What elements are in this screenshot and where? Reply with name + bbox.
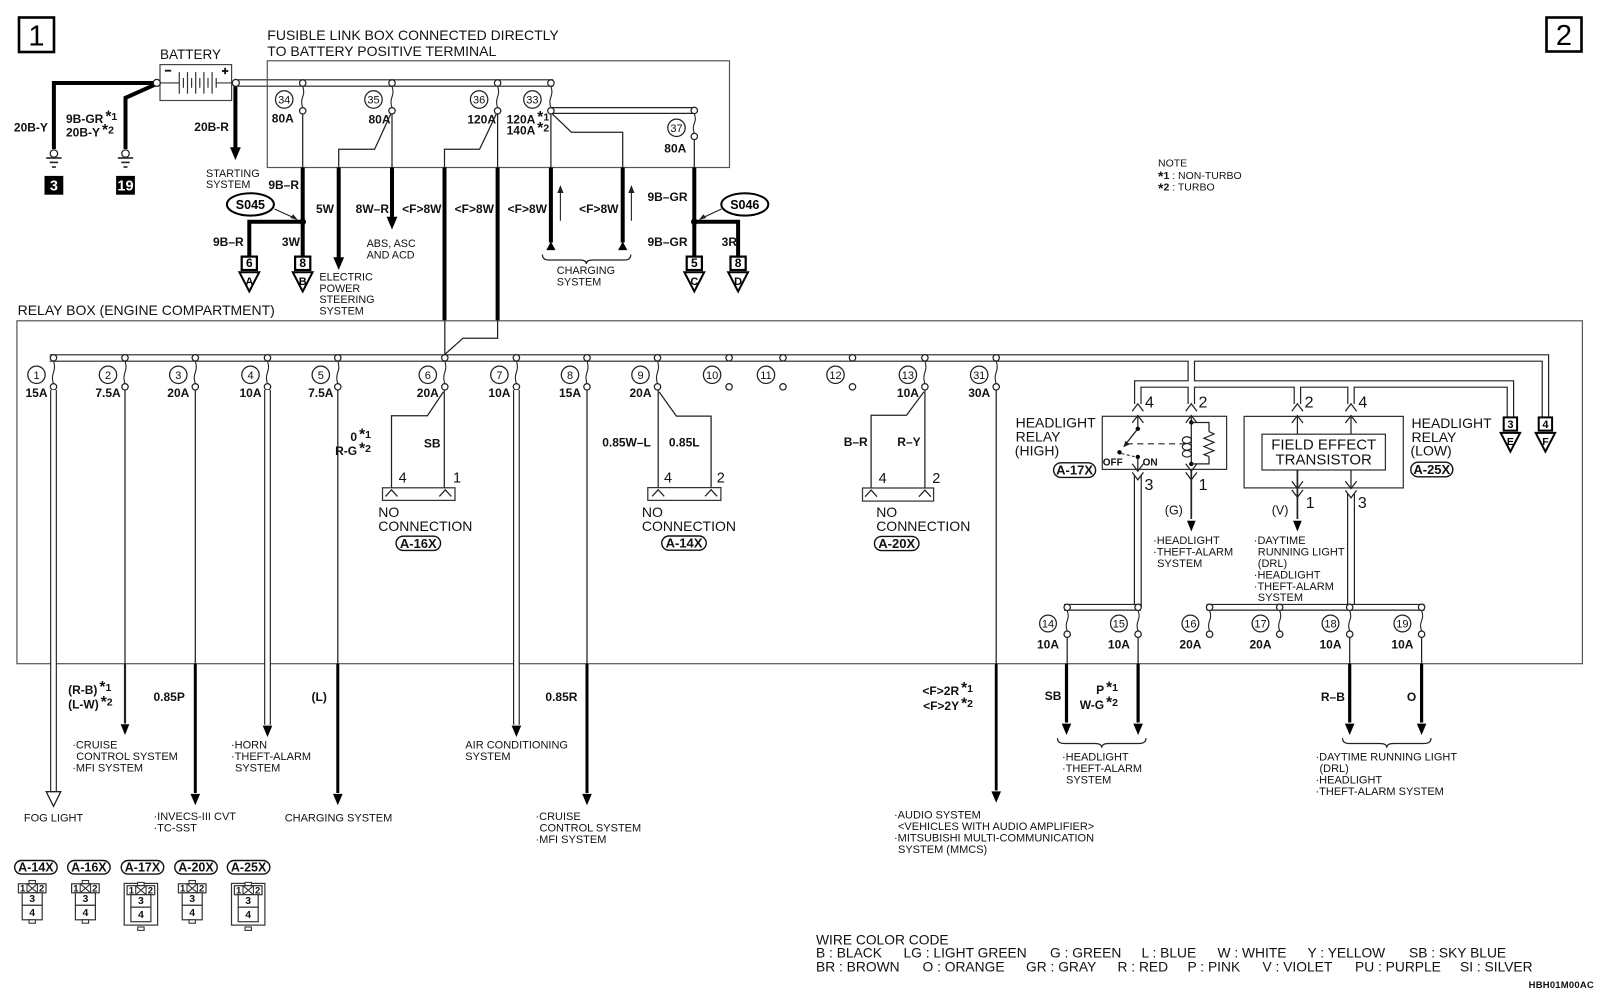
svg-text:3: 3	[1358, 495, 1367, 512]
svg-text:4: 4	[1358, 395, 1367, 412]
svg-text:SI : SILVER: SI : SILVER	[1460, 960, 1533, 975]
svg-text:4: 4	[82, 907, 88, 919]
svg-text:3: 3	[82, 893, 88, 905]
wire pin2 to coil	[1190, 416, 1192, 423]
wire fuse9 to A-14X pin4 (0.85W-L)	[657, 390, 659, 488]
op box: headlight relay high U1	[1102, 416, 1226, 469]
svg-text:3: 3	[50, 178, 58, 194]
fuse 19 (10A)	[1418, 604, 1424, 610]
svg-text:10A: 10A	[1391, 638, 1413, 652]
svg-text:A-16X: A-16X	[71, 861, 107, 875]
svg-text:A-14X: A-14X	[666, 536, 703, 551]
battery negative terminal	[153, 79, 160, 86]
svg-text:4: 4	[1145, 395, 1154, 412]
relay coil	[1190, 423, 1192, 464]
svg-text:SYSTEM: SYSTEM	[465, 751, 510, 763]
fuse 16 (20A)	[1206, 604, 1212, 610]
fusible link 36	[494, 80, 500, 86]
svg-text:(L): (L)	[312, 690, 327, 704]
wire fuse4 output (horn)	[264, 390, 271, 725]
wire ON contact to pin3	[1137, 457, 1139, 470]
fuse bus segment 2 (16-19)	[1207, 604, 1425, 611]
svg-text:9B–GR: 9B–GR	[647, 235, 687, 249]
wire fuse13 to A-20X pin2 (R-Y)	[924, 390, 926, 488]
svg-text:ELECTRIC: ELECTRIC	[319, 271, 373, 283]
wire to connector B	[301, 222, 305, 257]
wire pin4 to switch	[1137, 416, 1139, 429]
fuse 13 (10A)	[922, 355, 928, 361]
svg-text:9: 9	[637, 370, 643, 382]
wire audio output from fuse31	[995, 664, 998, 791]
splice S045	[227, 193, 274, 215]
svg-text:·HEADLIGHT: ·HEADLIGHT	[1153, 535, 1220, 547]
fuse 15 (10A)	[1135, 604, 1141, 610]
svg-text:30A: 30A	[968, 386, 990, 400]
wire P/W-G from fuse15	[1136, 664, 1139, 723]
connector pinout A-17X	[121, 861, 164, 875]
svg-text:S045: S045	[236, 198, 265, 212]
svg-text:7: 7	[496, 370, 502, 382]
svg-text:LG : LIGHT GREEN: LG : LIGHT GREEN	[904, 946, 1027, 961]
svg-text:FOG LIGHT: FOG LIGHT	[24, 813, 84, 825]
svg-text:20A: 20A	[167, 386, 189, 400]
svg-text:4: 4	[245, 909, 251, 921]
svg-text:BR : BROWN: BR : BROWN	[816, 960, 900, 975]
svg-text:·DAYTIME RUNNING LIGHT: ·DAYTIME RUNNING LIGHT	[1316, 751, 1458, 763]
svg-text:2: 2	[105, 370, 111, 382]
connector 3/E	[1504, 417, 1517, 430]
svg-text:4: 4	[664, 471, 672, 487]
svg-text:O: O	[1407, 690, 1416, 704]
FET entry chevrons	[1292, 416, 1303, 423]
svg-text:5: 5	[691, 256, 698, 270]
svg-text:10A: 10A	[488, 386, 510, 400]
svg-text:CHARGING SYSTEM: CHARGING SYSTEM	[285, 813, 393, 825]
fuse 9 (20A)	[654, 355, 660, 361]
svg-text:AND ACD: AND ACD	[367, 249, 415, 261]
wire fuse36 branch	[445, 113, 497, 167]
svg-text:8W–R: 8W–R	[356, 202, 390, 216]
svg-text:1: 1	[33, 370, 39, 382]
svg-text:HBH01M00AC: HBH01M00AC	[1529, 980, 1594, 991]
junction S046	[691, 219, 698, 226]
connector pinout A-25X	[227, 861, 270, 875]
wire 9B-GR from fuse37	[692, 168, 696, 220]
connector A-16X body	[383, 488, 456, 501]
svg-text:31: 31	[973, 370, 985, 382]
svg-text:S046: S046	[730, 198, 759, 212]
relay high entry chevrons on box edge	[1132, 416, 1143, 423]
wire FET pin3 out	[1350, 470, 1352, 488]
fusible link box	[267, 61, 729, 168]
svg-text:13: 13	[902, 370, 914, 382]
svg-text:·MFI SYSTEM: ·MFI SYSTEM	[72, 762, 143, 774]
svg-text:4: 4	[189, 907, 195, 919]
svg-text:AIR CONDITIONING: AIR CONDITIONING	[465, 739, 568, 751]
svg-text:2: 2	[1556, 20, 1572, 52]
connector pinout A-20X	[175, 861, 218, 875]
wire fuse8 output	[586, 390, 588, 664]
brace headlight/theft-alarm	[1058, 738, 1147, 748]
wire (L) from fuse5	[336, 664, 339, 793]
charging direction arrow 2	[630, 189, 632, 221]
fusible link 33	[548, 80, 554, 86]
svg-text:3: 3	[189, 893, 195, 905]
svg-text:12: 12	[829, 370, 841, 382]
svg-text:·THEFT-ALARM: ·THEFT-ALARM	[1254, 581, 1334, 593]
wire fuse36 output straight	[497, 114, 499, 168]
fuse 8 (15A)	[584, 355, 590, 361]
svg-text:<F>8W: <F>8W	[402, 202, 442, 216]
svg-text:10A: 10A	[1037, 638, 1059, 652]
svg-text:STARTING: STARTING	[206, 168, 260, 180]
wire fuse5 output	[337, 390, 339, 664]
wire fuse7 output (air conditioning)	[513, 390, 520, 725]
svg-text:·THEFT-ALARM SYSTEM: ·THEFT-ALARM SYSTEM	[1316, 786, 1444, 798]
relay box (engine compartment)	[17, 321, 1583, 664]
svg-text:20B-Y*2: 20B-Y*2	[66, 122, 114, 140]
svg-text:D: D	[734, 276, 742, 288]
svg-text:(V): (V)	[1272, 503, 1289, 517]
svg-text:CHARGING: CHARGING	[557, 265, 615, 277]
connector A-14X body	[648, 488, 721, 501]
svg-text:140A*2: 140A*2	[507, 120, 550, 138]
svg-text:·HEADLIGHT: ·HEADLIGHT	[1062, 751, 1129, 763]
connector 4/F	[1539, 417, 1552, 430]
svg-text:8: 8	[299, 256, 306, 270]
relay high pin1 exit chevron	[1186, 464, 1197, 471]
wire 0.85R from fuse8	[586, 664, 589, 793]
svg-text:BATTERY: BATTERY	[160, 47, 221, 62]
svg-text:GR : GRAY: GR : GRAY	[1026, 960, 1096, 975]
svg-text:(DRL): (DRL)	[1258, 558, 1287, 570]
wire fuse 15 output	[1137, 637, 1139, 663]
svg-text:(DRL): (DRL)	[1320, 763, 1349, 775]
charging system brace	[542, 255, 630, 265]
svg-text:TO BATTERY POSITIVE TERMINAL: TO BATTERY POSITIVE TERMINAL	[267, 43, 496, 59]
svg-text:L : BLUE: L : BLUE	[1142, 946, 1197, 961]
wire SB from fuse14	[1065, 664, 1068, 723]
fusible link 37	[691, 107, 697, 113]
svg-text:1: 1	[1306, 495, 1315, 512]
svg-text:SYSTEM (MMCS): SYSTEM (MMCS)	[898, 844, 987, 856]
wire cruise/MFI output from fuse2	[124, 664, 126, 724]
wire feed into bus from F8W no.1	[444, 321, 446, 355]
sheet number box 2	[1547, 18, 1582, 52]
svg-text:CONNECTION: CONNECTION	[876, 518, 970, 534]
svg-text:<F>8W: <F>8W	[455, 202, 495, 216]
wire pin4 into FET	[1350, 416, 1352, 435]
svg-text:17: 17	[1254, 618, 1266, 630]
svg-text:4: 4	[138, 909, 144, 921]
svg-text:SYSTEM: SYSTEM	[1258, 592, 1303, 604]
svg-text:80A: 80A	[368, 112, 390, 126]
svg-text:3: 3	[1507, 419, 1513, 431]
wire fuse34 output	[302, 114, 304, 168]
relay box main bus	[50, 358, 1546, 417]
svg-text:B: B	[299, 276, 307, 288]
svg-text:10: 10	[706, 370, 718, 382]
svg-text:15: 15	[1113, 618, 1125, 630]
fuse 2 (7.5A)	[122, 355, 128, 361]
battery positive feed bus	[238, 79, 553, 87]
svg-text:18: 18	[1324, 618, 1336, 630]
svg-text:·CRUISE: ·CRUISE	[72, 739, 117, 751]
wire FET pin1 out	[1296, 470, 1298, 519]
wire battery negative to ground 3 (20B-Y)	[54, 83, 155, 149]
wire to connector C	[692, 222, 696, 257]
svg-text:ON: ON	[1143, 457, 1158, 468]
svg-text:SB: SB	[1045, 689, 1062, 703]
svg-text:2: 2	[932, 471, 940, 487]
svg-text:11: 11	[760, 370, 771, 382]
svg-text:20A: 20A	[417, 386, 439, 400]
svg-text:3: 3	[29, 893, 35, 905]
wire F8W no.1 (to relay box)	[443, 168, 447, 321]
connector pinout A-16X	[68, 861, 111, 875]
svg-text:·HEADLIGHT: ·HEADLIGHT	[1316, 774, 1383, 786]
svg-text:O : ORANGE: O : ORANGE	[923, 960, 1005, 975]
svg-text:80A: 80A	[272, 112, 294, 126]
fuse 17 (20A)	[1277, 604, 1283, 610]
wire pin3 (hollow) down to fuse 18	[1347, 494, 1355, 607]
svg-text:4: 4	[1542, 419, 1549, 431]
svg-text:SYSTEM: SYSTEM	[206, 179, 250, 191]
connector A-20X body	[863, 488, 934, 501]
svg-text:<VEHICLES WITH AUDIO AMPLIFIER: <VEHICLES WITH AUDIO AMPLIFIER>	[898, 821, 1094, 833]
svg-text:B–R: B–R	[844, 435, 868, 449]
fuse 4 (10A)	[264, 355, 270, 361]
svg-text:1: 1	[28, 21, 44, 53]
svg-text:B : BLACK: B : BLACK	[816, 946, 883, 961]
svg-text:A-17X: A-17X	[125, 861, 161, 875]
fuse 3 (20A)	[192, 355, 198, 361]
svg-text:4: 4	[879, 471, 887, 487]
svg-text:POWER: POWER	[319, 283, 360, 295]
svg-text:10A: 10A	[897, 386, 919, 400]
svg-text:0.85L: 0.85L	[669, 436, 700, 450]
svg-text:33: 33	[526, 94, 538, 106]
wire air conditioning output from fuse7 (hollow)	[512, 726, 522, 737]
svg-text:SYSTEM: SYSTEM	[557, 276, 601, 288]
svg-text:SYSTEM: SYSTEM	[1066, 774, 1111, 786]
wire fuse 14 output	[1066, 637, 1068, 663]
svg-text:A-25X: A-25X	[1413, 462, 1450, 477]
svg-text:10A: 10A	[239, 386, 261, 400]
wire 9B-R from fuse34	[301, 168, 305, 220]
relay high pin arrows at wire ends	[1132, 404, 1143, 411]
fuse 18 (10A)	[1347, 604, 1353, 610]
svg-text:8: 8	[735, 256, 742, 270]
wire fuse 19 output	[1421, 637, 1423, 663]
wire F8W no.4 (charging)	[621, 168, 625, 243]
svg-text:3: 3	[175, 370, 181, 382]
wire fuse6 to A-16X pin1 (SB)	[443, 390, 445, 488]
svg-text:G : GREEN: G : GREEN	[1050, 946, 1121, 961]
svg-text:STEERING: STEERING	[319, 294, 374, 306]
splice S046	[721, 193, 768, 215]
svg-text:*2 : TURBO: *2 : TURBO	[1158, 180, 1215, 196]
brace DRL (18/19)	[1343, 738, 1432, 748]
svg-text:0.85R: 0.85R	[545, 690, 577, 704]
svg-text:0.85P: 0.85P	[154, 690, 185, 704]
wire 5W	[337, 168, 341, 258]
svg-text:TRANSISTOR: TRANSISTOR	[1275, 452, 1372, 469]
connector pinout A-14X	[15, 861, 58, 875]
FET pin arrows at wire ends	[1292, 404, 1303, 411]
junction S045	[299, 219, 306, 226]
wire 0.85P from fuse3	[194, 664, 197, 793]
svg-text:(HIGH): (HIGH)	[1015, 442, 1059, 458]
svg-text:P : PINK: P : PINK	[1188, 960, 1241, 975]
svg-text:(L-W)*2: (L-W)*2	[68, 694, 113, 712]
svg-text:A-20X: A-20X	[178, 861, 214, 875]
fuse 11 (empty)	[780, 355, 786, 361]
ground 19	[122, 150, 129, 157]
svg-text:34: 34	[278, 94, 290, 106]
svg-text:W : WHITE: W : WHITE	[1218, 946, 1287, 961]
svg-text:2: 2	[1305, 395, 1314, 412]
svg-text:·AUDIO SYSTEM: ·AUDIO SYSTEM	[894, 809, 981, 821]
FET inner box U2	[1262, 434, 1385, 470]
connector 6/A	[242, 257, 257, 270]
svg-text:·CRUISE: ·CRUISE	[536, 811, 581, 823]
svg-text:SYSTEM: SYSTEM	[319, 306, 363, 318]
svg-text:16: 16	[1184, 618, 1196, 630]
wire fuse1 output (fog light)	[50, 390, 57, 791]
svg-text:OFF: OFF	[1103, 457, 1123, 468]
wire F8W no.3 (charging)	[549, 168, 553, 243]
wire fuse35 output straight (8W-R)	[391, 114, 393, 168]
svg-text:RELAY BOX (ENGINE COMPARTMENT): RELAY BOX (ENGINE COMPARTMENT)	[18, 302, 275, 318]
fuse 1 (15A)	[50, 355, 56, 361]
wire to connector D	[692, 222, 738, 257]
svg-text:20A: 20A	[1249, 638, 1271, 652]
svg-text:3: 3	[138, 895, 144, 907]
sheet number box 1	[19, 18, 54, 53]
wire fuse37 output	[693, 140, 695, 168]
wire fuse33 output straight	[550, 114, 552, 168]
svg-text:10A: 10A	[1319, 638, 1341, 652]
svg-text:R : RED: R : RED	[1118, 960, 1169, 975]
relay high pin3 exit chevron	[1132, 464, 1143, 471]
charging direction arrow 1	[559, 189, 561, 221]
fuse 6 (20A)	[442, 355, 448, 361]
svg-text:4: 4	[399, 471, 407, 487]
svg-text:15A: 15A	[559, 386, 581, 400]
svg-text:20B-R: 20B-R	[194, 120, 229, 134]
connector 8/B	[295, 257, 310, 270]
wire battery negative to ground 19	[126, 84, 157, 149]
svg-text:(G): (G)	[1165, 503, 1183, 517]
wire feed into bus from F8W no.2	[445, 321, 498, 355]
wire pin2 into FET	[1296, 416, 1298, 435]
svg-text:F: F	[1542, 436, 1549, 448]
svg-text:7.5A: 7.5A	[308, 386, 334, 400]
svg-text:·TC-SST: ·TC-SST	[154, 822, 198, 834]
fuse 5 (7.5A)	[335, 355, 341, 361]
svg-text:15A: 15A	[25, 386, 47, 400]
svg-text:<F>2Y*2: <F>2Y*2	[923, 696, 973, 714]
svg-text:RUNNING LIGHT: RUNNING LIGHT	[1258, 547, 1345, 559]
svg-text:R–Y: R–Y	[897, 435, 920, 449]
svg-text:·THEFT-ALARM: ·THEFT-ALARM	[1153, 547, 1233, 559]
svg-text:CONTROL SYSTEM: CONTROL SYSTEM	[76, 751, 178, 763]
svg-text:3W: 3W	[282, 235, 301, 249]
wire 20B-R to starting system	[233, 86, 237, 148]
wire fuse9 to A-14X pin2 (0.85L)	[659, 392, 711, 488]
svg-text:·THEFT-ALARM: ·THEFT-ALARM	[1062, 763, 1142, 775]
svg-text:A-20X: A-20X	[878, 536, 915, 551]
op box: headlight relay low outer	[1244, 416, 1403, 488]
svg-text:2: 2	[717, 471, 725, 487]
OFF contact dot	[1117, 450, 1121, 454]
svg-text:6: 6	[246, 256, 253, 270]
wire fuse35 branch (5W)	[339, 113, 391, 167]
svg-text:7.5A: 7.5A	[95, 386, 121, 400]
connector 8/D	[731, 257, 746, 270]
fuse 14 (10A)	[1064, 604, 1070, 610]
svg-text:10A: 10A	[1108, 638, 1130, 652]
svg-text:20A: 20A	[629, 386, 651, 400]
svg-text:19: 19	[117, 178, 133, 194]
wire to connector A	[249, 222, 304, 257]
svg-text:3: 3	[1145, 477, 1154, 494]
svg-text:SB: SB	[424, 436, 441, 450]
dashed actuation line	[1127, 443, 1187, 445]
coil node bottom dot	[1189, 462, 1193, 466]
wire O from fuse19	[1420, 664, 1423, 723]
svg-text:C: C	[690, 276, 698, 288]
svg-text:<F>8W: <F>8W	[508, 202, 548, 216]
svg-text:CONTROL SYSTEM: CONTROL SYSTEM	[540, 822, 642, 834]
svg-text:SB : SKY BLUE: SB : SKY BLUE	[1409, 946, 1506, 961]
fuse 12 (empty)	[849, 355, 855, 361]
coil node top dot	[1189, 420, 1193, 424]
svg-text:FUSIBLE LINK BOX CONNECTED DIR: FUSIBLE LINK BOX CONNECTED DIRECTLY	[267, 27, 559, 43]
svg-text:A-16X: A-16X	[400, 536, 437, 551]
svg-text:·MITSUBISHI MULTI-COMMUNICATIO: ·MITSUBISHI MULTI-COMMUNICATION	[894, 832, 1094, 844]
svg-text:2: 2	[1199, 395, 1208, 412]
svg-text:·INVECS-III CVT: ·INVECS-III CVT	[154, 811, 237, 823]
svg-text:R–B: R–B	[1321, 690, 1345, 704]
svg-text:5W: 5W	[316, 202, 335, 216]
svg-text:A-17X: A-17X	[1056, 463, 1093, 478]
switch arm	[1126, 429, 1138, 444]
wire horn output from fuse4 (hollow)	[263, 726, 273, 737]
svg-text:1: 1	[1199, 477, 1208, 494]
svg-text:V : VIOLET: V : VIOLET	[1263, 960, 1333, 975]
svg-text:A-25X: A-25X	[231, 861, 267, 875]
svg-text:4: 4	[247, 370, 253, 382]
battery positive terminal	[232, 79, 239, 86]
svg-text:·HORN: ·HORN	[231, 739, 267, 751]
svg-text:9B–R: 9B–R	[213, 235, 244, 249]
svg-text:Y : YELLOW: Y : YELLOW	[1308, 946, 1386, 961]
svg-text:ABS, ASC: ABS, ASC	[367, 238, 416, 250]
fuse 7 (10A)	[513, 355, 519, 361]
fuse bus segment 1 (14-15)	[1064, 604, 1141, 611]
svg-text:80A: 80A	[664, 141, 686, 155]
ground 3	[50, 150, 57, 157]
svg-text:·THEFT-ALARM: ·THEFT-ALARM	[231, 751, 311, 763]
svg-text:E: E	[1507, 436, 1514, 448]
bus after fuse 33 to fuse 37	[551, 107, 694, 114]
svg-text:CONNECTION: CONNECTION	[642, 518, 736, 534]
wire fuse33 branch right	[552, 114, 623, 168]
svg-text:6: 6	[425, 370, 431, 382]
wire F8W no.2 (to relay box)	[496, 168, 500, 321]
